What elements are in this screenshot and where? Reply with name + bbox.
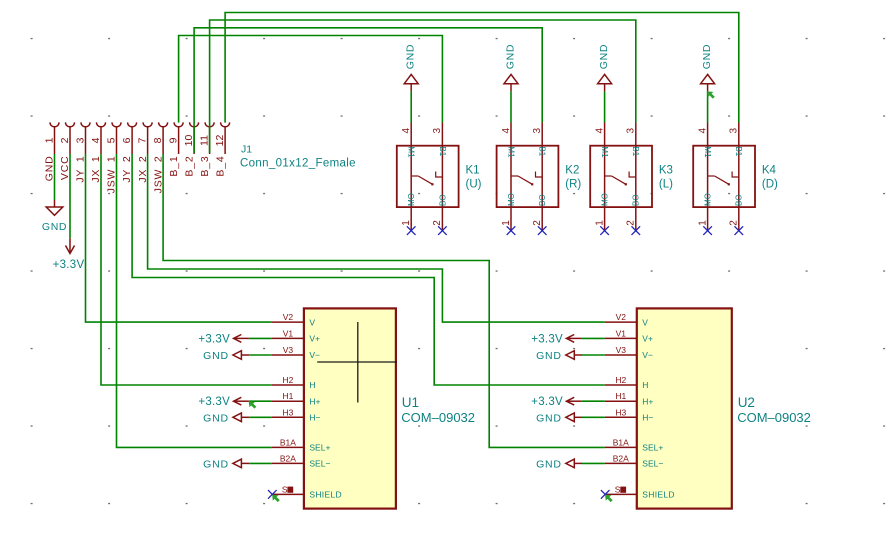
svg-text:+3.3V: +3.3V: [53, 259, 85, 271]
wire GND to U2 H3: [582, 416, 605, 418]
svg-text:1: 1: [501, 220, 512, 226]
J1 pin 5 (JSW_1): [105, 122, 121, 193]
svg-text:3: 3: [74, 137, 86, 143]
svg-text:BO: BO: [735, 194, 744, 206]
svg-text:BO: BO: [538, 194, 547, 206]
svg-text:4: 4: [401, 127, 412, 133]
svg-text:(D): (D): [762, 179, 778, 191]
svg-text:1: 1: [697, 220, 708, 226]
svg-text:3: 3: [432, 127, 443, 133]
J1 pin 2 (VCC): [59, 122, 75, 180]
svg-text:MO: MO: [507, 193, 516, 206]
J1 pin 11 (B_3): [198, 122, 214, 176]
svg-text:Conn_01x12_Female: Conn_01x12_Female: [240, 158, 356, 170]
svg-text:2: 2: [532, 220, 543, 226]
svg-text:V−: V−: [642, 350, 653, 360]
K2 switch lever: [511, 172, 542, 186]
svg-text:4: 4: [501, 127, 512, 133]
+3.3V power symbol at U1 pin H1: [198, 396, 249, 408]
+3.3V power symbol at J1 pin 2: [53, 238, 85, 271]
wire net B_1 from J1 pin 9 to K1 pin 3: [179, 36, 443, 123]
svg-text:K3: K3: [659, 165, 673, 177]
wire net B_2 from J1 pin 10 to K2 pin 3: [194, 28, 542, 153]
K4 pin 3 (B1): [738, 123, 740, 178]
svg-text:V+: V+: [642, 334, 653, 344]
U1 pin B2A (SEL−): [272, 453, 331, 468]
svg-text:J1: J1: [241, 144, 252, 156]
U2 pin S (SHIELD): [605, 485, 675, 500]
wire net JSW_1 from J1 pin 5 to U1 SEL+: [117, 154, 272, 447]
svg-text:B_3: B_3: [199, 156, 211, 177]
wire GND to U1 H3: [249, 416, 272, 418]
svg-text:H2: H2: [282, 375, 293, 385]
U1 pin B1A (SEL+): [272, 437, 331, 452]
K3 pin 4 (M1): [604, 123, 606, 177]
svg-text:K1: K1: [466, 165, 480, 177]
+3.3V power symbol at U2 pin H1: [531, 396, 582, 408]
svg-text:GND: GND: [701, 44, 713, 69]
J1 pin 4 (JX_1): [90, 122, 106, 182]
svg-text:M1: M1: [407, 146, 416, 158]
svg-text:5: 5: [105, 137, 117, 143]
U2 pin H2 (H): [605, 375, 649, 390]
svg-text:V+: V+: [309, 334, 320, 344]
K4 pin 1 (MO): [707, 176, 709, 230]
svg-text:V1: V1: [283, 328, 294, 338]
svg-text:MO: MO: [704, 193, 713, 206]
GND power symbol at U1 pin H3: [203, 412, 249, 424]
svg-text:H−: H−: [309, 413, 320, 423]
J1 pin 12 (B_4): [214, 122, 230, 176]
svg-text:+3.3V: +3.3V: [531, 333, 563, 345]
svg-text:COM–09032: COM–09032: [401, 410, 475, 425]
wire net B_4 from J1 pin 12 to K4 pin 3: [225, 13, 739, 123]
wire GND to U1 V3: [249, 354, 272, 356]
marker cursor arrow at U1 H1 wire: [249, 402, 256, 408]
K2 pin 2 (BO): [541, 177, 543, 230]
svg-text:M1: M1: [600, 146, 609, 158]
svg-text:V: V: [642, 317, 648, 327]
svg-text:GND: GND: [536, 458, 562, 470]
svg-text:11: 11: [198, 135, 210, 146]
+3.3V power symbol at U2 pin V1: [531, 333, 582, 345]
wire GND K2: [510, 91, 512, 122]
switch K4 (D): [693, 123, 778, 231]
K1 pin 1 (MO): [410, 176, 412, 230]
no-connect X at K3 pin 1: [600, 226, 609, 235]
U2 pin B2A (SEL−): [605, 453, 664, 468]
U1 pin S (SHIELD): [272, 485, 342, 500]
GND power symbol above K3 pin 4: [598, 44, 612, 92]
U2 pin H3 (H−): [605, 407, 654, 422]
GND power symbol at U2 pin B2A: [536, 458, 582, 470]
svg-text:(L): (L): [659, 179, 673, 191]
svg-text:V2: V2: [283, 312, 294, 322]
svg-text:M1: M1: [703, 146, 712, 158]
K1 pin 3 (B1): [441, 123, 443, 178]
marker cursor arrow at K4 GND wire: [708, 92, 715, 98]
svg-text:12: 12: [214, 135, 226, 147]
K2 pin 3 (B1): [541, 123, 543, 178]
svg-text:B1A: B1A: [280, 437, 296, 447]
K3 pin 2 (BO): [635, 177, 637, 230]
connector J1 Conn_01x12_Female: [43, 122, 356, 193]
svg-text:4: 4: [594, 127, 605, 133]
svg-text:H+: H+: [642, 396, 653, 406]
svg-text:B1: B1: [631, 146, 640, 156]
wire GND to U2 V3: [582, 354, 605, 356]
svg-text:M1: M1: [506, 146, 515, 158]
svg-text:+3.3V: +3.3V: [198, 396, 230, 408]
svg-text:+3.3V: +3.3V: [198, 333, 230, 345]
svg-text:B2A: B2A: [613, 453, 629, 463]
U1 pin H1 (H+): [272, 391, 321, 406]
wire GND to U1 B2A: [249, 462, 272, 464]
K3 pin 1 (MO): [604, 176, 606, 230]
svg-text:H: H: [309, 380, 315, 390]
K4 switch lever: [708, 172, 739, 186]
J1 pin 7 (JX_2): [136, 122, 152, 182]
svg-text:10: 10: [183, 135, 195, 147]
svg-text:B1: B1: [734, 146, 743, 156]
svg-text:3: 3: [532, 127, 543, 133]
svg-text:7: 7: [136, 137, 148, 143]
joystick module U1 COM-09032: [272, 308, 475, 508]
no-connect X at K1 pin 1: [407, 226, 416, 235]
no-connect X at K1 pin 2: [438, 226, 447, 235]
GND power symbol at U1 pin V3: [203, 350, 249, 362]
switch K1 (U): [397, 123, 482, 231]
svg-text:8: 8: [152, 137, 164, 143]
U2 pin V2 (V): [605, 312, 649, 327]
K1 pin 4 (M1): [410, 123, 412, 177]
svg-text:1: 1: [594, 220, 605, 226]
GND power symbol at U2 pin H3: [536, 412, 582, 424]
svg-text:V3: V3: [283, 345, 294, 355]
svg-text:(U): (U): [466, 179, 482, 191]
svg-text:(R): (R): [565, 179, 581, 191]
wire net B_3 from J1 pin 11 to K3 pin 3: [210, 20, 636, 153]
U1 pin H3 (H−): [272, 407, 321, 422]
svg-text:MO: MO: [601, 193, 610, 206]
GND power symbol above K4 pin 4: [701, 44, 715, 92]
svg-text:V−: V−: [309, 350, 320, 360]
GND power symbol above K1 pin 4: [404, 44, 418, 92]
K2 pin 1 (MO): [510, 176, 512, 230]
U1 pin V2 (V): [272, 312, 316, 327]
switch K2 (R): [497, 123, 582, 231]
svg-text:V2: V2: [616, 312, 627, 322]
wire net JX_2 from J1 pin 7 to U2 V: [148, 154, 605, 322]
wire +3.3V to U1 H1: [249, 400, 272, 402]
wire net VCC from J1 pin 2 down to +3.3V symbol: [69, 154, 71, 238]
svg-text:GND: GND: [536, 350, 562, 362]
K4 pin 2 (BO): [738, 177, 740, 230]
J1 pin 3 (JY_1): [74, 122, 90, 182]
wire +3.3V to U1 V1: [249, 337, 272, 339]
svg-text:H1: H1: [615, 391, 626, 401]
joystick module U2 COM-09032: [605, 308, 811, 508]
no-connect X at U2 SHIELD pin: [601, 490, 610, 499]
svg-text:SHIELD: SHIELD: [642, 490, 675, 500]
svg-text:COM–09032: COM–09032: [737, 410, 811, 425]
U1 pin V1 (V+): [272, 328, 320, 343]
svg-text:B1: B1: [438, 146, 447, 156]
wire GND K1: [410, 91, 412, 122]
svg-text:B1: B1: [538, 146, 547, 156]
svg-text:H3: H3: [615, 407, 626, 417]
no-connect X at U1 SHIELD pin: [268, 490, 277, 499]
no-connect X at K4 pin 1: [703, 226, 712, 235]
wire +3.3V to U2 H1: [582, 400, 605, 402]
svg-text:2: 2: [626, 220, 637, 226]
K2 pin 4 (M1): [510, 123, 512, 177]
wire net GND from J1 pin 1 down to GND symbol: [54, 154, 56, 200]
wire net JY_2 from J1 pin 6 to U2 H: [132, 154, 605, 385]
no-connect X at K2 pin 2: [538, 226, 547, 235]
svg-text:GND: GND: [504, 44, 516, 69]
K1 pin 2 (BO): [441, 177, 443, 230]
K4 pin 4 (M1): [707, 123, 709, 177]
svg-text:GND: GND: [203, 350, 229, 362]
U2 pin B1A (SEL+): [605, 437, 664, 452]
svg-text:SEL−: SEL−: [642, 459, 663, 469]
svg-text:U1: U1: [402, 395, 419, 410]
wire GND K4: [707, 91, 709, 122]
U1 pin H2 (H): [272, 375, 316, 390]
svg-text:H: H: [642, 380, 648, 390]
K3 switch lever: [605, 172, 636, 186]
svg-text:H3: H3: [282, 407, 293, 417]
svg-text:GND: GND: [536, 412, 562, 424]
U2 pin V1 (V+): [605, 328, 653, 343]
svg-text:H+: H+: [309, 396, 320, 406]
wire net JY_1 from J1 pin 3 to U1 V: [86, 154, 272, 322]
svg-text:MO: MO: [407, 193, 416, 206]
svg-text:K2: K2: [565, 165, 579, 177]
svg-text:9: 9: [167, 137, 179, 143]
svg-text:K4: K4: [762, 165, 777, 177]
svg-text:V1: V1: [616, 328, 627, 338]
svg-text:SEL+: SEL+: [642, 443, 663, 453]
J1 designator and value: [240, 144, 356, 170]
GND power symbol at U1 pin B2A: [203, 458, 249, 470]
switch K3 (L): [590, 123, 673, 231]
svg-text:B_2: B_2: [183, 156, 195, 177]
svg-text:B_1: B_1: [168, 156, 180, 177]
J1 pin 10 (B_2): [183, 122, 199, 176]
svg-text:V3: V3: [616, 345, 627, 355]
marker cursor arrow at U2 SHIELD pin: [606, 495, 613, 501]
U1 pin V3 (V−): [272, 345, 320, 360]
svg-text:GND: GND: [598, 44, 610, 69]
GND power symbol at U2 pin V3: [536, 350, 582, 362]
GND power symbol above K2 pin 4: [504, 44, 518, 92]
+3.3V power symbol at U1 pin V1: [198, 333, 249, 345]
no-connect X at K3 pin 2: [632, 226, 641, 235]
wire +3.3V to U2 V1: [582, 337, 605, 339]
svg-text:B1A: B1A: [613, 437, 629, 447]
svg-text:GND: GND: [203, 412, 229, 424]
svg-text:B2A: B2A: [280, 453, 296, 463]
svg-text:6: 6: [121, 137, 133, 143]
svg-text:SHIELD: SHIELD: [309, 490, 342, 500]
no-connect X at K4 pin 2: [735, 226, 744, 235]
no-connect X at K2 pin 1: [507, 226, 516, 235]
U2 pin V3 (V−): [605, 345, 653, 360]
J1 pin 9 (B_1): [167, 122, 183, 176]
K3 pin 3 (B1): [635, 123, 637, 178]
wire GND to U2 B2A: [582, 462, 605, 464]
svg-text:SEL−: SEL−: [309, 459, 330, 469]
svg-text:1: 1: [43, 137, 55, 143]
svg-text:3: 3: [729, 127, 740, 133]
svg-text:GND: GND: [405, 44, 417, 69]
svg-text:1: 1: [401, 220, 412, 226]
svg-text:S: S: [282, 485, 288, 495]
K1 switch lever: [411, 172, 442, 186]
svg-text:BO: BO: [438, 194, 447, 206]
svg-text:V: V: [309, 317, 315, 327]
svg-text:2: 2: [59, 137, 71, 143]
J1 pin 1 (GND): [43, 122, 59, 181]
svg-text:GND: GND: [203, 458, 229, 470]
svg-text:B_4: B_4: [214, 156, 226, 177]
wire net JSW_2 from J1 pin 8 to U2 SEL+: [163, 154, 605, 447]
svg-text:2: 2: [432, 220, 443, 226]
svg-text:H1: H1: [282, 391, 293, 401]
J1 pin 6 (JY_2): [121, 122, 137, 182]
svg-text:4: 4: [90, 137, 102, 143]
J1 pin 8 (JSW_2): [152, 122, 168, 193]
svg-text:3: 3: [626, 127, 637, 133]
svg-text:4: 4: [697, 127, 708, 133]
U2 pin H1 (H+): [605, 391, 654, 406]
svg-text:SEL+: SEL+: [309, 443, 330, 453]
svg-text:2: 2: [729, 220, 740, 226]
svg-text:H−: H−: [642, 413, 653, 423]
U1 joystick crosshair graphic: [317, 322, 397, 403]
svg-text:BO: BO: [632, 194, 641, 206]
svg-text:+3.3V: +3.3V: [531, 396, 563, 408]
wire net JX_1 from J1 pin 4 to U1 H: [101, 154, 272, 385]
GND power symbol at J1 pin 1: [42, 200, 67, 233]
wire GND K3: [604, 91, 606, 122]
svg-text:H2: H2: [615, 375, 626, 385]
svg-text:GND: GND: [42, 221, 67, 233]
marker cursor arrow at U1 SHIELD pin: [273, 495, 280, 501]
svg-text:U2: U2: [738, 395, 755, 410]
svg-text:S: S: [615, 485, 621, 495]
